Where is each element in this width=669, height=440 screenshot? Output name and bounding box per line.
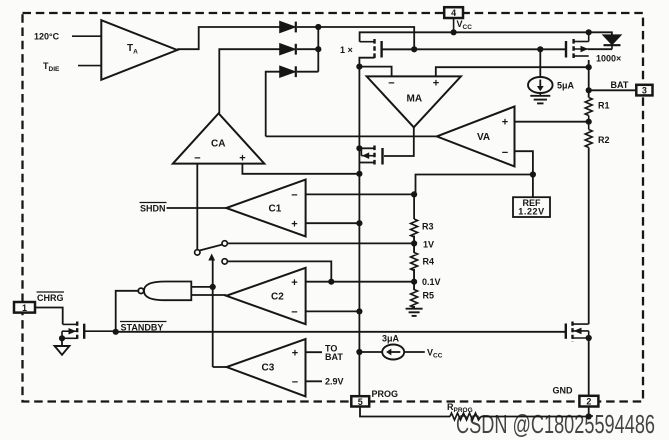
wire C1 plus line <box>306 222 360 224</box>
wire diode row 1 to 1x gate drop <box>297 27 414 49</box>
node REF <box>530 171 536 177</box>
wire TA output to diode row 1 <box>177 27 280 49</box>
wire C3 output to riser <box>213 366 227 368</box>
svg-text:−: − <box>194 153 200 165</box>
diode body 1000x <box>588 35 621 49</box>
svg-text:1.22V: 1.22V <box>518 206 545 216</box>
svg-text:C2: C2 <box>271 291 284 302</box>
node diode1 junction <box>315 24 321 30</box>
wire R4 to R5 <box>413 269 415 290</box>
node C2 minus bus <box>356 308 362 314</box>
wire 1000x drain down to BAT node <box>588 60 590 98</box>
wire VCC rail <box>360 32 612 41</box>
node BAT <box>586 87 592 93</box>
wire C2 minus to bus <box>306 310 360 312</box>
svg-text:BAT: BAT <box>325 352 343 362</box>
svg-text:1000×: 1000× <box>596 54 621 64</box>
node R1 R2 junction <box>586 119 592 125</box>
svg-text:+: + <box>291 219 297 231</box>
node C2 plus riser <box>328 279 334 285</box>
wire MA minus stub <box>359 67 391 77</box>
wire R5 to ground <box>413 306 415 309</box>
wire 1x drain to center bus dot <box>359 58 374 67</box>
DIODES <box>280 22 621 78</box>
node 1V tap <box>411 240 417 246</box>
node C1 minus tap <box>411 191 417 197</box>
wire switch control / C3 output vertical <box>212 260 214 368</box>
CURRENT SOURCES <box>382 77 552 360</box>
svg-text:R2: R2 <box>598 135 610 145</box>
svg-text:5: 5 <box>358 397 363 407</box>
wire C1 minus line <box>306 193 416 195</box>
resistor R4 <box>411 253 418 271</box>
svg-text:4: 4 <box>451 8 456 18</box>
label CHRG overlined <box>37 292 65 303</box>
wire 3uA left lead to bus <box>359 351 382 353</box>
svg-text:STANDBY: STANDBY <box>121 323 164 333</box>
svg-text:C1: C1 <box>269 204 282 215</box>
svg-text:+: + <box>291 277 297 289</box>
svg-text:5μA: 5μA <box>557 81 575 91</box>
resistor R5 <box>411 290 418 308</box>
wire C3 plus stub <box>306 351 323 353</box>
wire NAND input B to C2 output <box>191 294 226 296</box>
resistor R2 <box>585 130 592 148</box>
svg-text:−: − <box>291 307 297 319</box>
wire gate rail 1x to 1000x <box>382 48 566 50</box>
wire RPROG right segment to pin2 bottom <box>481 407 589 417</box>
wire MA plus stub to 1000x drain node <box>436 67 589 76</box>
node pin4 vcc rail <box>451 29 457 35</box>
diode D1 <box>280 22 296 33</box>
wire STANDBY rail <box>116 331 566 333</box>
node diode2 junction <box>315 46 321 52</box>
svg-text:−: − <box>502 147 508 159</box>
node 1000x drain MA plus <box>586 64 592 70</box>
svg-text:−: − <box>292 377 298 389</box>
wire 5uA source top to gate rail <box>539 49 541 77</box>
svg-text:1 ×: 1 × <box>340 45 353 55</box>
svg-text:+: + <box>239 153 245 165</box>
node NAND output standby <box>113 329 119 335</box>
svg-text:VA: VA <box>477 132 490 143</box>
svg-text:3μA: 3μA <box>382 334 400 344</box>
pin 4 stem <box>453 18 455 32</box>
diode D2 <box>280 44 296 55</box>
svg-text:0.1V: 0.1V <box>422 277 441 287</box>
wire C3 minus stub <box>306 380 323 382</box>
ground below R5 <box>406 309 423 316</box>
AMPLIFIERS <box>72 20 515 396</box>
svg-text:C3: C3 <box>262 363 275 374</box>
wire C2 plus line to 0.1V tap <box>306 281 415 283</box>
wire VA minus to REF node <box>515 151 533 174</box>
pin 3 box <box>636 85 652 96</box>
svg-text:+: + <box>433 78 439 90</box>
wire 1V line to switch contact a <box>228 242 415 244</box>
label SHDN overlined <box>140 203 167 214</box>
switch control arrow <box>208 254 215 261</box>
wire CA minus down to switch contact <box>196 164 198 250</box>
wire 3uA right lead to VCC <box>404 351 425 353</box>
TRANSISTORS <box>62 32 612 341</box>
wire mirror source stub <box>359 147 374 149</box>
REF block <box>513 197 550 217</box>
wire diode row 3 cathode to junction riser <box>297 71 318 73</box>
wire BAT node to pin 3 <box>589 89 637 91</box>
svg-text:−: − <box>291 189 297 201</box>
svg-text:120°C: 120°C <box>34 32 60 42</box>
node right NMOS bulk <box>586 335 592 341</box>
svg-text:PROG: PROG <box>372 389 399 399</box>
diode D3 <box>280 66 296 77</box>
node 1x gate <box>411 46 417 52</box>
wire CA output up to diode row 2 <box>219 49 280 113</box>
wire diode junction vertical <box>317 27 319 72</box>
op-amp CA <box>173 113 264 163</box>
wire R2 bottom to right NMOS drain <box>588 148 590 325</box>
wire pin1 to CHRG NMOS drain <box>35 308 63 325</box>
node pin2 bottom <box>586 413 592 419</box>
svg-text:−: − <box>388 78 394 90</box>
node 3uA bus <box>356 349 362 355</box>
ground below 5uA <box>530 96 550 104</box>
svg-text:R1: R1 <box>598 101 610 111</box>
svg-text:2: 2 <box>586 397 591 407</box>
pin 1 box <box>14 302 35 313</box>
comparator C1 <box>226 180 305 237</box>
transistor Q1 CHRG NMOS (gate right) <box>62 322 116 342</box>
wire diode row 2 cathode to junction <box>297 48 318 50</box>
resistor R1 <box>585 98 592 116</box>
transistor 1000x PMOS (gate left) <box>566 32 612 60</box>
wire NAND input A <box>191 286 212 288</box>
node mirror source <box>356 145 362 151</box>
op-amp VA <box>437 107 515 167</box>
svg-text:R3: R3 <box>422 222 434 232</box>
svg-text:3: 3 <box>642 86 647 96</box>
node CA plus bus <box>356 171 362 177</box>
transistor Q2 discharge NMOS (gate left) <box>566 322 589 342</box>
node 1000x source <box>586 29 592 35</box>
pin 2 box <box>579 396 598 407</box>
svg-text:+: + <box>292 347 298 359</box>
switch S1 <box>195 241 228 264</box>
current source 5uA <box>528 77 553 96</box>
wire R1 R2 junction VA plus rail <box>515 121 589 123</box>
wire right NMOS source to GND pin <box>588 338 590 395</box>
wire center bus vertical <box>358 67 360 397</box>
node C1 plus bus <box>356 220 362 226</box>
plus minus marks <box>194 78 508 389</box>
wire R3 to R4 <box>413 236 415 254</box>
node 0.1V tap <box>411 279 417 285</box>
svg-text:R4: R4 <box>423 257 435 267</box>
svg-text:1V: 1V <box>423 240 434 250</box>
wire resistor tap chain <box>413 194 415 219</box>
wire switch contact b to C2 plus riser <box>228 261 332 281</box>
svg-text:R5: R5 <box>423 291 435 301</box>
op-amp TA <box>72 20 177 80</box>
transistor 1x mirror PMOS (gate right) <box>360 39 415 60</box>
op-amp MA <box>367 76 461 127</box>
node CHRG bulk source tie <box>59 335 65 341</box>
wire pin5 bottom stem <box>360 406 450 416</box>
node 1x drain bus top <box>356 64 362 70</box>
comparator C2 <box>226 268 305 324</box>
svg-text:SHDN: SHDN <box>140 204 166 214</box>
wire REF box stem <box>532 175 534 198</box>
wire NAND output to STANDBY rail <box>116 291 139 332</box>
wire CA plus input down to bus <box>242 164 359 174</box>
svg-text:1: 1 <box>22 303 27 313</box>
current source 3uA <box>382 345 404 360</box>
NAND gate <box>138 282 191 301</box>
resistor R3 <box>411 219 418 237</box>
comparator C3 <box>227 339 306 396</box>
resistor RPROG external <box>450 413 481 420</box>
wire diode row 3 anode from VA rail riser <box>266 72 280 137</box>
svg-text:CHRG: CHRG <box>37 293 64 303</box>
svg-text:CSDN @C18025594486: CSDN @C18025594486 <box>456 409 655 439</box>
svg-text:GND: GND <box>553 386 574 396</box>
label STANDBY overlined <box>120 322 167 333</box>
node 5uA gate rail <box>537 46 543 52</box>
wire CHRG NMOS source to gnd arrow <box>61 338 63 346</box>
node NAND input A <box>210 284 216 290</box>
wire SHDN to C1 apex <box>167 207 227 209</box>
wire MA output down to mirror gate <box>384 127 414 156</box>
ground arrow below Q1 <box>55 346 70 355</box>
wire REF rail to C1 minus junction <box>416 175 533 195</box>
wire mirror drain stub <box>359 162 374 164</box>
wire VA output rail to diode 3 riser <box>266 135 437 137</box>
RESISTORS <box>411 95 593 420</box>
svg-text:CA: CA <box>211 139 225 150</box>
pin 5 box <box>351 396 369 406</box>
svg-text:2.9V: 2.9V <box>325 377 344 387</box>
svg-text:MA: MA <box>407 94 423 105</box>
svg-text:BAT: BAT <box>611 80 629 90</box>
transistor mirror NMOS center (gate right) <box>361 146 382 168</box>
pin 4 box <box>444 7 463 18</box>
svg-text:+: + <box>502 117 508 129</box>
